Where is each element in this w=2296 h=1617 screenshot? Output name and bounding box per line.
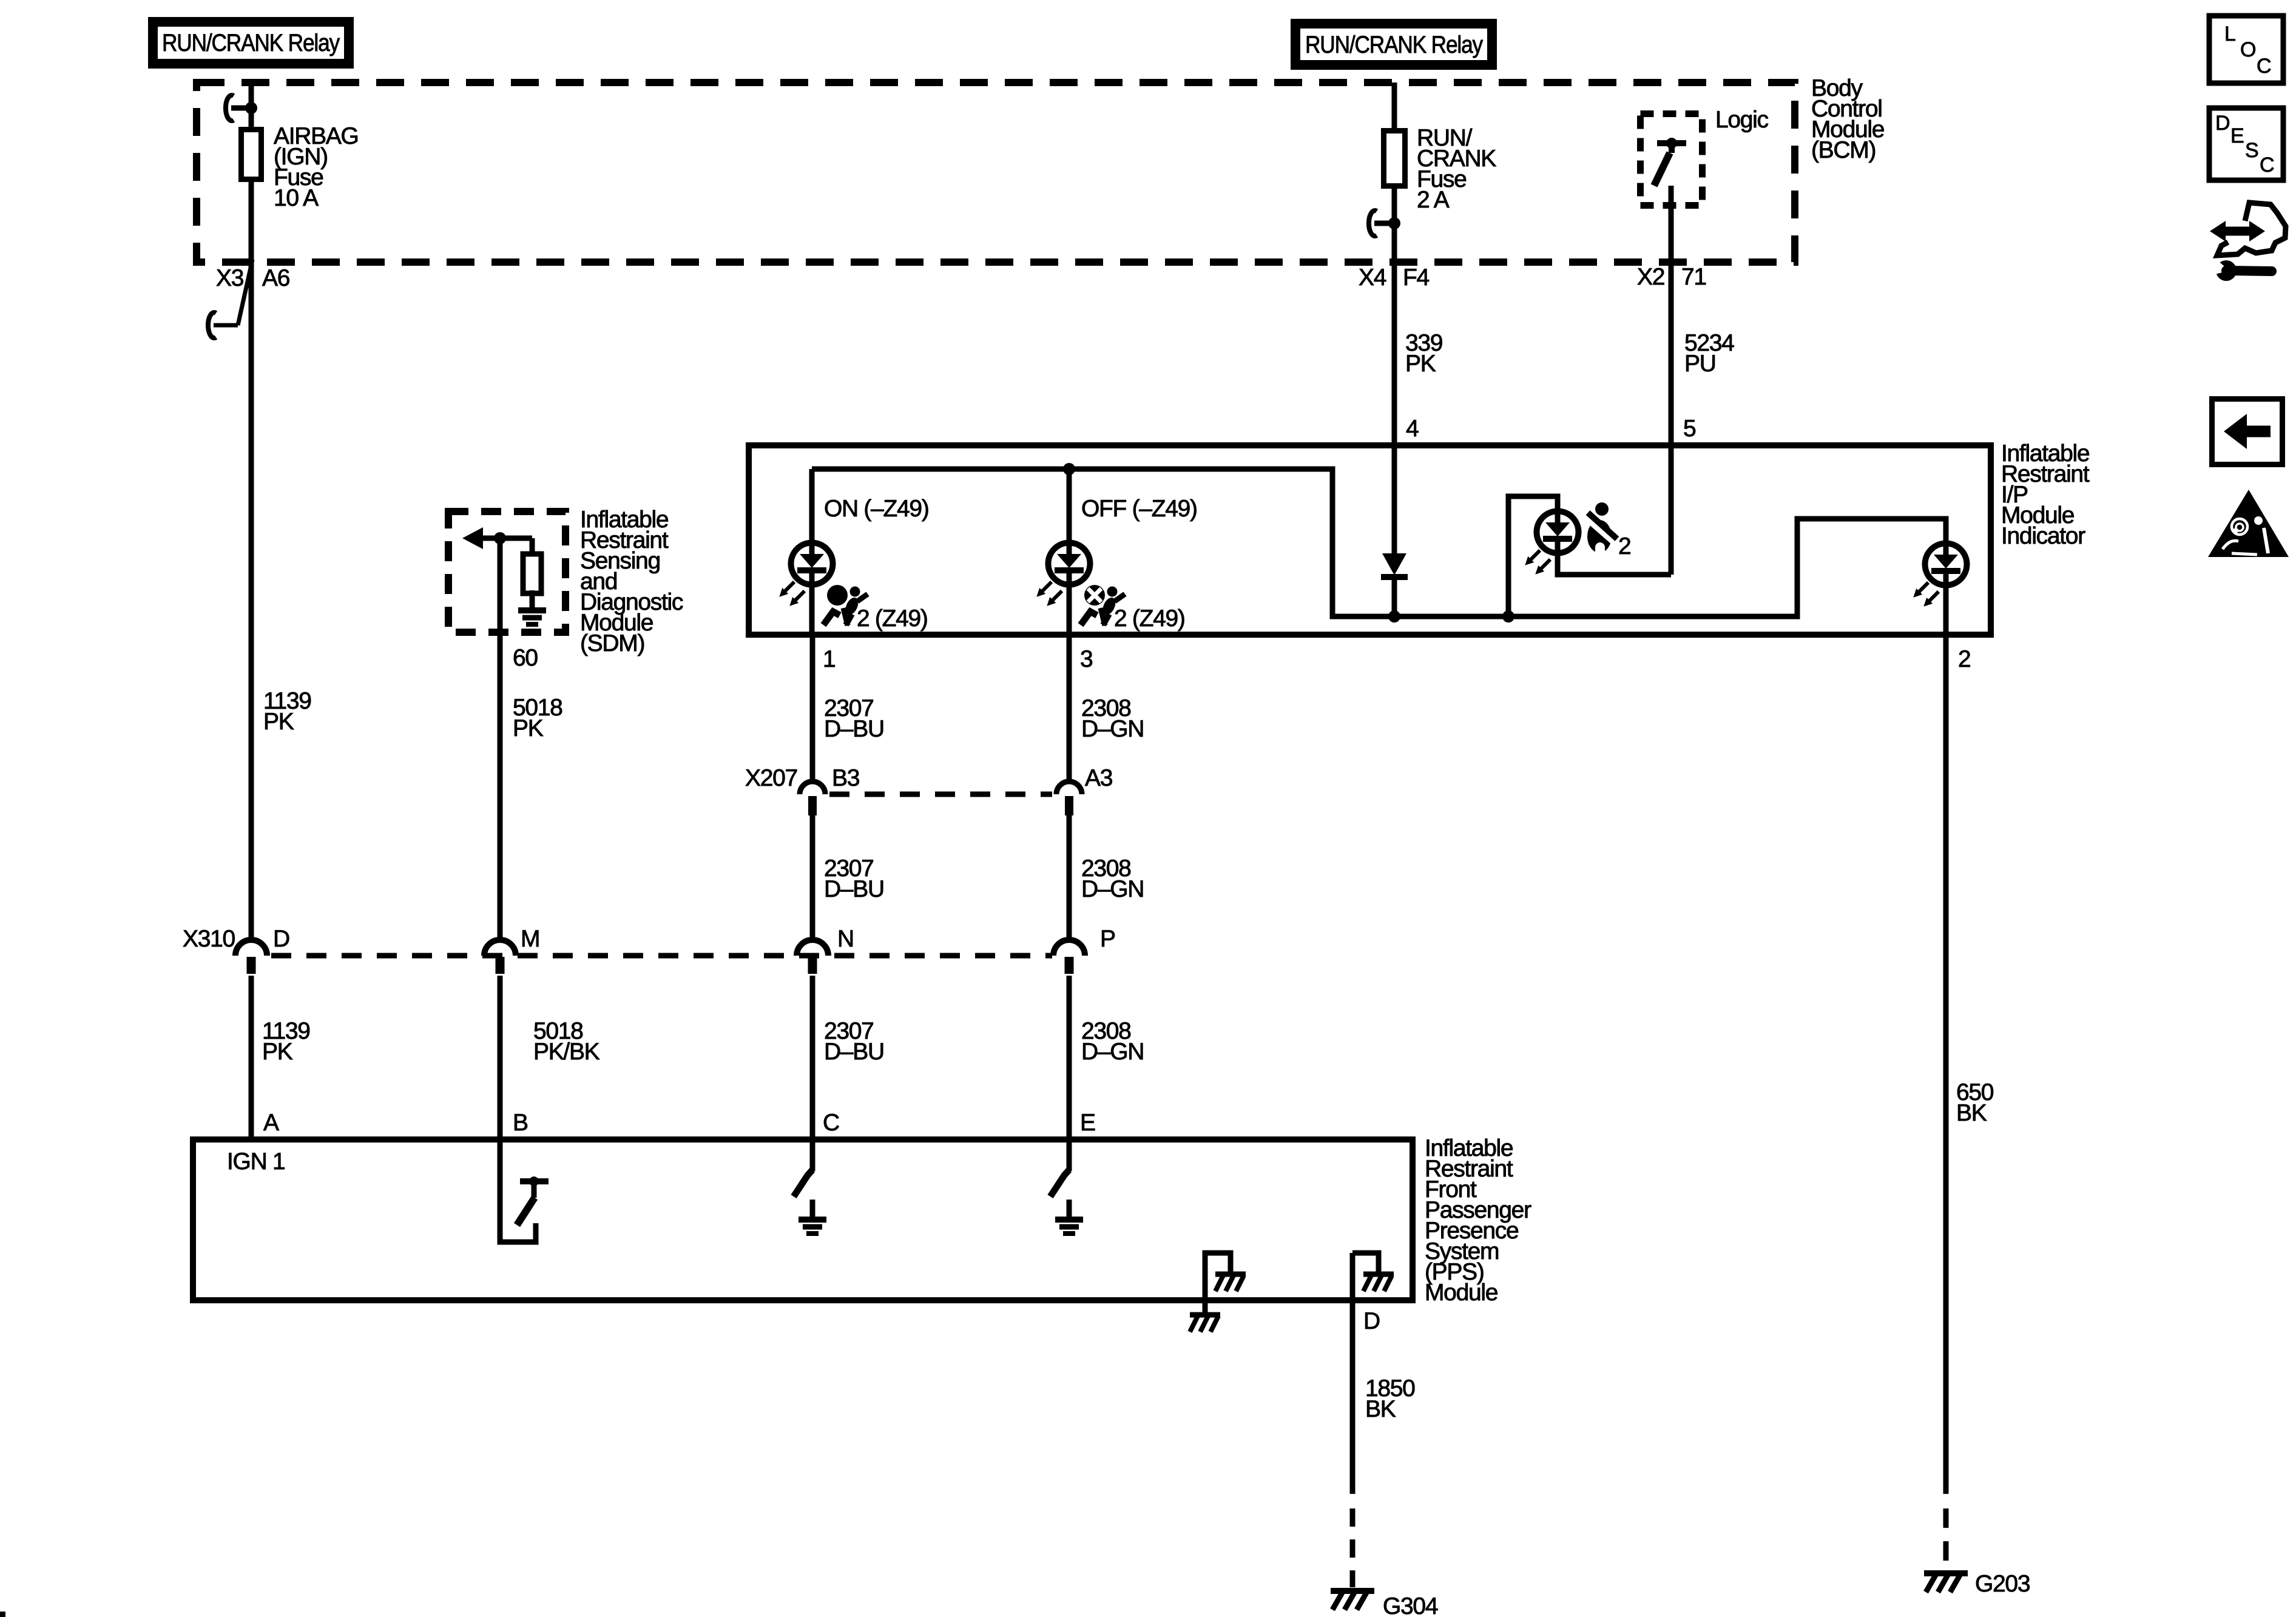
svg-text:BK: BK: [1365, 1396, 1396, 1422]
svg-text:RUN/CRANK Relay: RUN/CRANK Relay: [1305, 32, 1483, 58]
svg-text:PK: PK: [513, 715, 544, 741]
svg-text:D–GN: D–GN: [1081, 1039, 1144, 1065]
svg-text:A3: A3: [1085, 765, 1112, 791]
svg-text:PK: PK: [262, 1039, 293, 1065]
svg-text:Logic: Logic: [1715, 107, 1769, 133]
svg-text:10 A: 10 A: [274, 185, 319, 211]
svg-text:X2: X2: [1637, 264, 1664, 290]
svg-text:X4: X4: [1359, 265, 1386, 291]
svg-text:D: D: [2215, 112, 2229, 135]
svg-text:2: 2: [1618, 533, 1630, 559]
svg-text:PU: PU: [1684, 351, 1716, 377]
svg-text:Module: Module: [1425, 1280, 1497, 1306]
svg-text:N: N: [837, 926, 854, 952]
svg-text:D: D: [273, 926, 289, 952]
svg-text:RUN/CRANK Relay: RUN/CRANK Relay: [162, 30, 340, 56]
svg-text:OFF (–Z49): OFF (–Z49): [1081, 496, 1197, 522]
svg-text:60: 60: [513, 645, 538, 671]
svg-text:D–GN: D–GN: [1081, 876, 1144, 902]
svg-text:E: E: [1080, 1110, 1095, 1136]
svg-text:D–BU: D–BU: [824, 1039, 884, 1065]
svg-text:S: S: [2245, 139, 2258, 162]
svg-text:X3: X3: [216, 265, 243, 291]
svg-text:2 (Z49): 2 (Z49): [1114, 606, 1185, 632]
svg-text:1: 1: [823, 646, 835, 672]
svg-text:O: O: [2240, 38, 2255, 61]
svg-text:4: 4: [1406, 416, 1419, 442]
svg-text:E: E: [2230, 124, 2244, 147]
svg-text:X207: X207: [745, 765, 797, 791]
svg-text:IGN 1: IGN 1: [227, 1149, 285, 1175]
svg-text:PK: PK: [263, 709, 294, 735]
svg-text:C: C: [2260, 154, 2274, 177]
svg-text:2 A: 2 A: [1417, 187, 1450, 213]
svg-text:X310: X310: [183, 926, 235, 952]
svg-text:B: B: [513, 1110, 528, 1136]
svg-text:G203: G203: [1975, 1571, 2030, 1597]
svg-text:B3: B3: [832, 765, 859, 791]
svg-text:ON (–Z49): ON (–Z49): [824, 496, 929, 522]
svg-text:M: M: [521, 926, 539, 952]
svg-text:2 (Z49): 2 (Z49): [857, 606, 928, 632]
svg-text:D–BU: D–BU: [824, 716, 884, 742]
svg-text:D–GN: D–GN: [1081, 716, 1144, 742]
svg-text:D: D: [1363, 1308, 1380, 1334]
svg-text:A: A: [263, 1110, 279, 1136]
svg-text:(SDM): (SDM): [580, 630, 644, 657]
svg-text:P: P: [1100, 926, 1115, 952]
svg-text:PK: PK: [1405, 351, 1436, 377]
svg-text:BK: BK: [1956, 1100, 1987, 1126]
svg-text:Indicator: Indicator: [2001, 523, 2085, 549]
svg-text:C: C: [2257, 55, 2271, 78]
svg-text:L: L: [2224, 22, 2235, 46]
svg-text:5: 5: [1683, 416, 1696, 442]
svg-text:G304: G304: [1383, 1593, 1438, 1617]
svg-text:PK/BK: PK/BK: [533, 1039, 600, 1065]
svg-text:(BCM): (BCM): [1811, 137, 1876, 163]
svg-text:D–BU: D–BU: [824, 876, 884, 902]
svg-text:C: C: [823, 1110, 839, 1136]
svg-text:3: 3: [1080, 646, 1092, 672]
svg-text:A6: A6: [262, 265, 289, 291]
svg-text:71: 71: [1681, 264, 1706, 290]
svg-text:2: 2: [1958, 646, 1970, 672]
svg-text:F4: F4: [1403, 265, 1430, 291]
